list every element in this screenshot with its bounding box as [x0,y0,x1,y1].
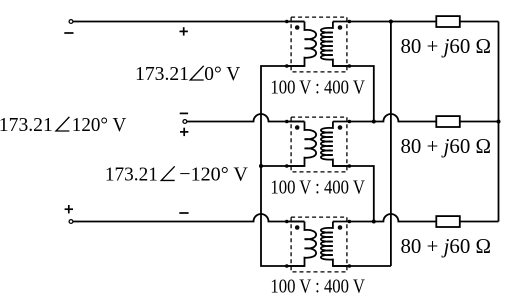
svg-text:80 + j60 Ω: 80 + j60 Ω [401,136,492,158]
svg-text:173.21: 173.21 [105,163,158,185]
svg-text:100 V : 400 V: 100 V : 400 V [270,76,365,98]
svg-text:173.21: 173.21 [135,63,189,85]
svg-text:0° V: 0° V [204,63,240,85]
svg-text:80 + j60 Ω: 80 + j60 Ω [401,236,492,258]
svg-text:173.21: 173.21 [0,114,53,136]
svg-text:120° V: 120° V [72,114,127,136]
svg-text:80 + j60 Ω: 80 + j60 Ω [401,36,492,58]
svg-text:100 V : 400 V: 100 V : 400 V [270,276,365,298]
svg-text:100 V : 400 V: 100 V : 400 V [270,176,365,198]
svg-text:−120° V: −120° V [179,163,248,185]
